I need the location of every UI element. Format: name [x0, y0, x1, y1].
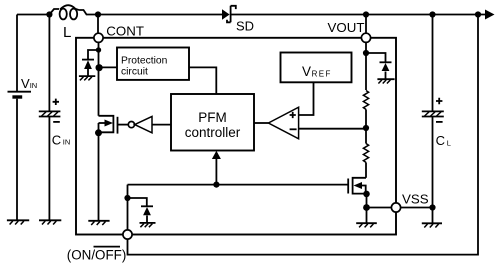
- svg-text:VOUT: VOUT: [328, 20, 365, 35]
- svg-text:V: V: [21, 76, 30, 91]
- svg-text:V: V: [302, 64, 311, 79]
- svg-text:L: L: [63, 24, 71, 41]
- svg-text:VSS: VSS: [402, 192, 429, 207]
- svg-text:L: L: [447, 139, 451, 148]
- svg-text:Protection: Protection: [121, 55, 168, 66]
- svg-text:IN: IN: [63, 138, 71, 147]
- svg-text:controller: controller: [185, 125, 241, 140]
- svg-text:SD: SD: [236, 19, 254, 34]
- svg-text:PFM: PFM: [198, 110, 227, 125]
- svg-text:circuit: circuit: [121, 67, 148, 78]
- svg-text:C: C: [436, 133, 445, 148]
- svg-text:REF: REF: [312, 70, 332, 79]
- svg-text:(ON/OFF): (ON/OFF): [67, 248, 127, 263]
- svg-text:IN: IN: [30, 81, 38, 90]
- svg-text:CONT: CONT: [106, 23, 144, 38]
- svg-text:C: C: [52, 133, 61, 148]
